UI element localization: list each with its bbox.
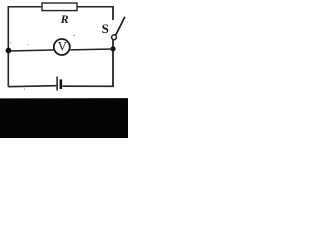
resistor R xyxy=(42,3,77,11)
battery long plate xyxy=(56,77,58,91)
svg-text:S: S xyxy=(102,21,109,36)
wire voltmeter branch left xyxy=(8,50,53,51)
junction node left xyxy=(6,48,12,54)
junction node right xyxy=(110,46,115,51)
switch S contact circle xyxy=(112,35,117,40)
svg-text:R: R xyxy=(60,12,69,26)
wire top right xyxy=(77,6,114,8)
wire left vertical xyxy=(7,7,9,87)
wire right lower xyxy=(112,40,114,87)
wire right upper (to switch) xyxy=(112,6,114,20)
voltmeter V xyxy=(54,39,70,55)
wire bottom left xyxy=(8,86,56,87)
scan speck below bottom wire xyxy=(24,89,25,90)
scan speck near voltmeter xyxy=(74,35,75,36)
scan artifact black band xyxy=(0,98,128,138)
wire top left xyxy=(8,6,43,8)
scan speck above branch wire xyxy=(27,44,28,45)
wire voltmeter branch right xyxy=(70,48,113,51)
wire bottom right xyxy=(62,85,114,87)
switch S lever xyxy=(116,17,125,35)
scan speck left of voltmeter wire xyxy=(10,42,11,43)
svg-text:V: V xyxy=(58,40,67,54)
battery short thick plate xyxy=(60,79,63,89)
